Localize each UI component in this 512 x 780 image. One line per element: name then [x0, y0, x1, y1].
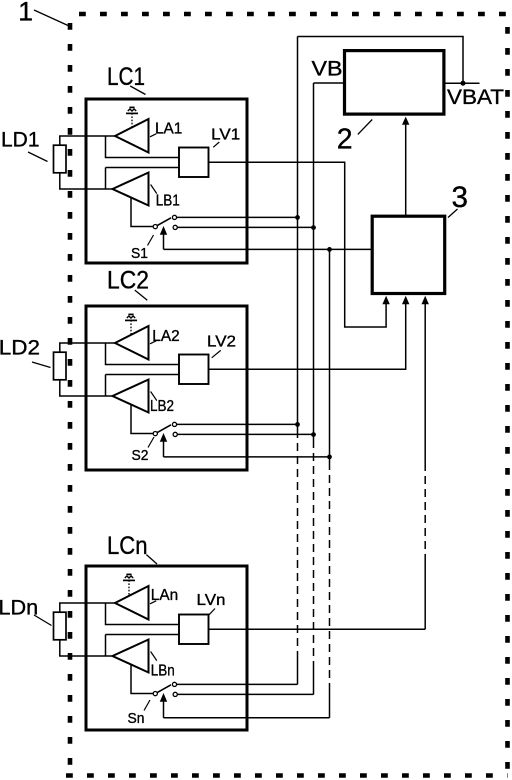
switch Sn lower throw contact: [173, 692, 177, 696]
svg-text:LA1: LA1: [155, 121, 182, 138]
switch Sn upper throw contact: [172, 682, 176, 686]
switch S1 upper throw contact: [172, 215, 176, 219]
leader line for label 3: [448, 209, 458, 218]
wire LDn bottom terminal to amplifier LBn output: [60, 639, 114, 656]
svg-text:VB: VB: [312, 57, 343, 80]
wire switch S2 control to bus C: [164, 456, 330, 458]
leader line for label LA1: [150, 134, 156, 137]
wire LA2/LB2 outputs to LV2 inputs: [106, 343, 180, 396]
svg-text:LV1: LV1: [211, 127, 240, 144]
svg-text:LDn: LDn: [0, 596, 38, 619]
wire LAn/LBn outputs to LVn inputs: [106, 603, 180, 656]
switch S2 lower throw contact: [173, 432, 177, 436]
label Sn: [128, 710, 145, 727]
leader line for label S1: [148, 235, 154, 246]
leader line for label LV1: [213, 142, 219, 147]
leader line for label LC1: [130, 86, 145, 95]
label LC2: [107, 267, 149, 295]
svg-text:S1: S1: [131, 245, 148, 262]
switch S1 blade: [157, 218, 171, 226]
leader line for label LDn: [34, 615, 52, 626]
amplifier LA2: [115, 326, 149, 360]
label LV1: [211, 127, 240, 144]
arrowhead LV2 into box 3: [402, 296, 409, 304]
label 2: [337, 124, 353, 156]
wire switch Sn upper throw to bus A: [177, 683, 298, 685]
wire VB from box 2 left to vertical bus B: [314, 82, 345, 84]
leader line for label LB2: [151, 392, 157, 401]
svg-text:LC2: LC2: [107, 267, 149, 295]
laser diode LD1: [54, 145, 67, 173]
junction bus C / S2 control: [327, 455, 332, 460]
arrowhead LV1 into box 3: [382, 296, 389, 304]
leader line for label LAn: [150, 601, 156, 604]
label LB1: [156, 193, 180, 210]
wire switch S2 lower throw to bus B: [177, 433, 313, 435]
voltage sensor LVn: [179, 615, 209, 645]
svg-text:LD1: LD1: [1, 129, 40, 152]
leader line for label LB1: [151, 185, 157, 194]
amplifier LBn: [113, 640, 149, 673]
wire LA1/LB1 outputs to LV1 inputs: [106, 136, 180, 189]
vertical bus C (switch control from box 3): [329, 249, 331, 717]
label LCn: [107, 532, 148, 560]
wire LB2 to switch S2 pole: [131, 405, 153, 434]
switch S1 lower throw contact: [173, 225, 177, 229]
switch S1 control arrow: [160, 226, 167, 249]
leader line for label LCn: [146, 555, 157, 564]
box 2 (supply block): [345, 51, 444, 115]
wire switch Sn control to bus C: [164, 717, 330, 719]
leader line for label LVn: [209, 609, 215, 615]
switch S2 upper throw contact: [172, 422, 176, 426]
svg-text:1: 1: [18, 0, 33, 27]
block LC2 (laser channel box): [86, 306, 247, 470]
leader line for label S2: [148, 437, 154, 448]
amplifier LB1: [113, 173, 149, 206]
junction bus A / S2 upper: [295, 422, 300, 427]
label S2: [132, 447, 149, 464]
amplifier LA1: [115, 119, 149, 153]
svg-text:LA2: LA2: [152, 328, 179, 345]
leader line for label Sn: [144, 700, 150, 711]
block LC1 (laser channel box): [86, 99, 247, 263]
block LCn (laser channel box): [86, 566, 247, 730]
wire LBn to switch Sn pole: [131, 665, 153, 694]
wire LB1 to switch S1 pole: [131, 198, 153, 227]
label LA2: [152, 328, 179, 345]
emission symbol above LAn: [123, 574, 135, 595]
svg-text:LB2: LB2: [150, 398, 174, 415]
svg-text:Sn: Sn: [128, 710, 145, 727]
switch Sn control arrow: [160, 693, 167, 718]
wire switch S2 upper throw to bus A: [177, 423, 298, 425]
svg-text:S2: S2: [132, 447, 149, 464]
junction bus B / S2 lower: [311, 432, 316, 437]
wire LD1 top terminal to amplifier LA1 output: [60, 136, 116, 145]
junction VBAT node: [461, 81, 466, 86]
label LD1: [1, 129, 40, 152]
junction bus A / S1 upper: [295, 215, 300, 220]
wire switch S1 upper throw to bus A: [177, 216, 298, 218]
switch S1 pole contact: [153, 225, 157, 229]
svg-text:LC1: LC1: [107, 63, 145, 91]
laser diode LDn: [54, 612, 67, 640]
switch S2 pole contact: [153, 432, 157, 436]
wire switch S1 lower throw to bus B: [177, 226, 313, 228]
leader line for label 2: [358, 120, 372, 135]
laser diode LD2: [54, 352, 67, 380]
label VB (net name): [312, 57, 343, 80]
emission symbol above LA1: [126, 107, 138, 127]
amplifier LB2: [113, 380, 149, 413]
wire LD1 bottom terminal to amplifier LB1 output: [60, 172, 114, 189]
voltage sensor LV1: [179, 148, 209, 178]
label 3: [452, 181, 469, 214]
label LBn: [151, 662, 175, 679]
leader line for label LD1: [28, 152, 48, 162]
leader line for label 1: [34, 10, 68, 26]
label 1: [18, 0, 33, 27]
wire switch S1 control to bus C: [164, 248, 373, 250]
wire LVn output to box 3 (dashed continuation): [209, 304, 426, 629]
label LB2: [150, 398, 174, 415]
label LV2: [207, 334, 236, 351]
leader line for label LD2: [32, 362, 51, 368]
wire LDn top terminal to amplifier LAn output: [60, 603, 116, 612]
label LVn: [197, 592, 226, 609]
svg-text:LD2: LD2: [0, 336, 40, 359]
wire VBAT output of box 2: [444, 82, 480, 84]
svg-text:LVn: LVn: [197, 592, 226, 609]
box 3 (control block): [372, 216, 445, 293]
wire LD2 top terminal to amplifier LA2 output: [60, 343, 116, 352]
label VBAT (net name): [447, 86, 504, 109]
leader line for label LV2: [212, 350, 221, 357]
label LA1: [155, 121, 182, 138]
junction bus C / S1 control: [327, 247, 332, 252]
junction bus B / S1 lower: [311, 225, 316, 230]
svg-text:LCn: LCn: [107, 532, 148, 560]
label LDn: [0, 596, 38, 619]
svg-text:2: 2: [337, 124, 353, 156]
switch Sn pole contact: [153, 692, 157, 696]
svg-text:LB1: LB1: [156, 193, 180, 210]
wire LV1 output to box 3: [209, 162, 387, 327]
svg-text:LBn: LBn: [151, 662, 175, 679]
wire box 3 to box 2 with arrow: [402, 117, 409, 217]
vertical bus B (VB net): [313, 83, 315, 695]
label LC1: [107, 63, 145, 91]
wire LV2 output to box 3: [209, 304, 406, 369]
wire switch Sn lower throw to bus B: [177, 693, 313, 695]
vertical bus A (to VBAT rail): [297, 37, 299, 685]
leader line for label LC2: [135, 290, 148, 300]
label S1: [131, 245, 148, 262]
svg-text:3: 3: [452, 181, 469, 214]
leader line for label LA2: [150, 341, 156, 344]
svg-text:LV2: LV2: [207, 334, 236, 351]
switch S2 blade: [157, 425, 171, 433]
label LAn: [151, 587, 178, 604]
amplifier LAn: [115, 586, 149, 620]
svg-text:VBAT: VBAT: [447, 86, 504, 109]
switch Sn blade: [157, 685, 171, 693]
leader line for label LBn: [151, 652, 157, 661]
emission symbol above LA2: [125, 314, 137, 334]
wire LD2 bottom terminal to amplifier LB2 output: [60, 379, 114, 396]
wire top rail from VBAT node to vertical bus A: [298, 37, 464, 84]
label LD2: [0, 336, 40, 359]
arrowhead LVn into box 3: [422, 296, 429, 304]
switch S2 control arrow: [160, 433, 167, 457]
voltage sensor LV2: [179, 355, 209, 385]
